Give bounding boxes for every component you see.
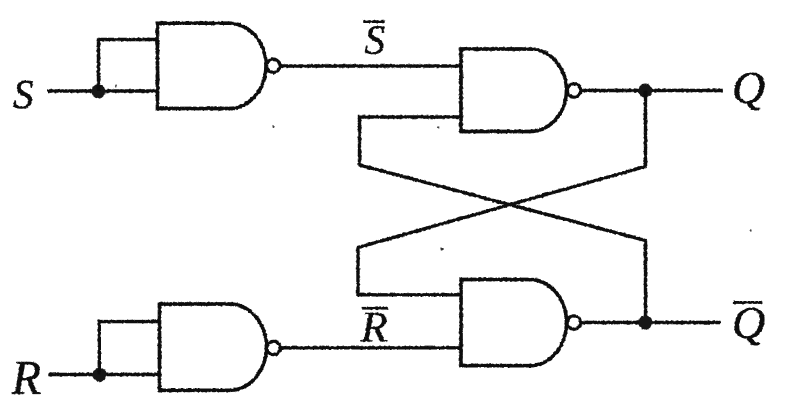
svg-text:Q: Q <box>732 297 765 348</box>
nand U3 (bottom latch gate) <box>461 280 567 366</box>
svg-text:S: S <box>13 71 34 117</box>
bubble U3 output <box>567 316 580 329</box>
nand U4 (R inverter) <box>160 304 267 390</box>
wire S feedback loop to top input of U1 <box>99 40 159 92</box>
wire U4 output to U3 bottom input (net R-bar) <box>281 346 461 349</box>
wire U2 bottom input to node Q-bar (cross coupling) <box>360 117 646 323</box>
svg-text:R: R <box>360 303 388 351</box>
wire U2 output to Q <box>582 89 723 92</box>
scan speck <box>272 125 274 127</box>
wire U1 output to U2 top input (net S-bar) <box>281 64 461 67</box>
node S input junction <box>92 84 106 98</box>
svg-text:Q: Q <box>732 62 765 113</box>
wire Q feedback to U3 top input (cross coupling) <box>358 91 646 295</box>
label S-bar overline <box>363 20 385 23</box>
bubble U1 output <box>267 59 280 72</box>
wire U3 output to Q-bar <box>582 321 721 324</box>
node Q junction <box>638 84 652 98</box>
wire S input <box>48 89 159 92</box>
label R-bar overline <box>362 307 388 310</box>
wire R feedback loop to top input of U4 <box>99 322 160 375</box>
scan speck <box>441 248 444 251</box>
node Q-bar junction <box>638 316 652 330</box>
node R input junction <box>93 368 107 382</box>
bubble U2 output <box>567 84 580 97</box>
scan speck <box>115 85 117 87</box>
label Q-bar overline <box>733 301 762 304</box>
bubble U4 output <box>267 341 280 354</box>
svg-text:R: R <box>11 352 42 405</box>
nand U1 (S inverter) <box>158 23 267 108</box>
svg-text:S: S <box>365 17 386 63</box>
nand U2 (top latch gate) <box>461 49 566 132</box>
wire R input <box>48 373 160 376</box>
scan speck <box>750 229 752 231</box>
scan speck <box>437 126 439 128</box>
